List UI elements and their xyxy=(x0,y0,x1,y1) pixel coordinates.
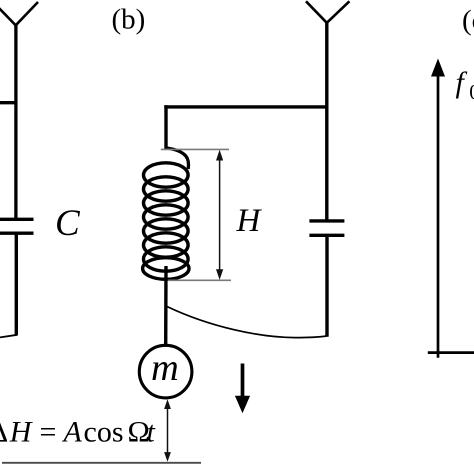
svg-text:H: H xyxy=(9,415,34,448)
svg-text:(c): (c) xyxy=(462,5,474,37)
svg-text:C: C xyxy=(55,203,81,244)
svg-text:0: 0 xyxy=(469,80,474,104)
svg-text:cos: cos xyxy=(84,415,124,448)
svg-text:=: = xyxy=(40,415,57,448)
svg-text:m: m xyxy=(151,347,179,389)
svg-text:(b): (b) xyxy=(112,4,146,36)
svg-text:t: t xyxy=(147,415,156,448)
svg-text:A: A xyxy=(62,415,83,448)
svg-text:Δ: Δ xyxy=(0,415,8,448)
svg-text:H: H xyxy=(236,203,263,239)
